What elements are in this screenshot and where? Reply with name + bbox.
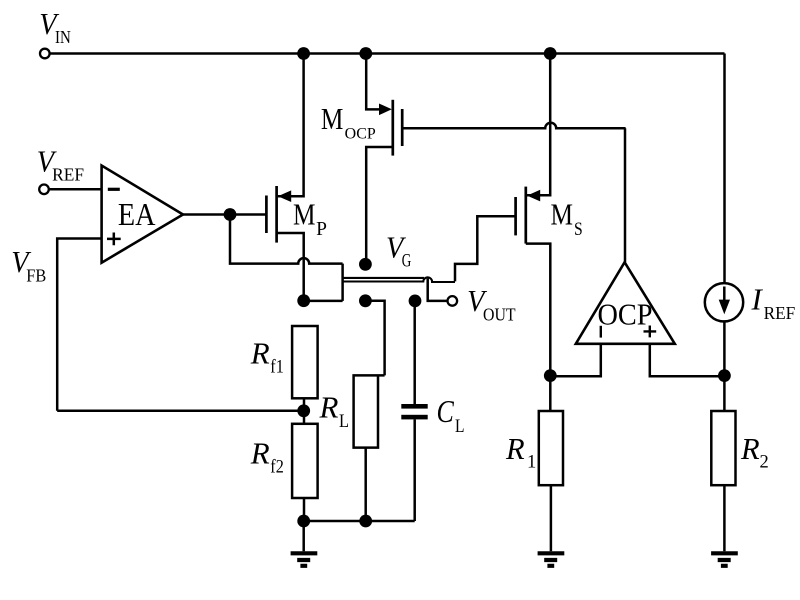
ground symbol R1 <box>538 553 565 566</box>
svg-text:1: 1 <box>527 452 536 472</box>
node junction dot ground rail RL <box>359 515 372 528</box>
wire MP source to below <box>277 233 304 301</box>
wire EA output branch down and right with hop over MP source <box>230 215 343 264</box>
svg-text:G: G <box>402 252 412 272</box>
wire bottom ground rail <box>304 520 415 523</box>
capacitor CL top plate <box>401 404 427 409</box>
transistor MOCP drain arrow <box>379 104 392 116</box>
current source IREF circle <box>705 283 743 321</box>
transistor MS gate bar <box>514 197 517 235</box>
wire EA plus input from VFB <box>57 239 101 411</box>
node junction dot feedback tap <box>297 404 310 417</box>
transistor MP channel bar <box>275 186 278 243</box>
svg-text:R: R <box>250 336 270 371</box>
node junction dot MS source at OCP input <box>544 369 557 382</box>
node junction dot MOCP source at VG bus <box>359 258 372 271</box>
node junction dot CL top <box>409 295 422 308</box>
resistor Rf1 <box>292 326 318 398</box>
svg-text:I: I <box>751 282 764 317</box>
node junction dot on rail at MS column <box>544 47 557 60</box>
comparator OCP triangle <box>576 262 675 344</box>
svg-text:C: C <box>437 394 455 429</box>
wire VIN top rail <box>50 52 725 55</box>
svg-text:R: R <box>505 432 525 466</box>
wire box bottom edge to MP source dot <box>304 300 343 303</box>
wire OCP minus input leg <box>550 344 601 377</box>
wire VG double bus lower line with hop to MS gate <box>343 277 455 282</box>
wire OCP output up <box>624 128 627 262</box>
OCP plus symbol <box>644 326 657 338</box>
EA minus symbol <box>108 188 120 191</box>
resistor R1 <box>539 411 563 485</box>
wire R2 bottom <box>723 485 726 551</box>
node junction dot on rail at MOCP column <box>359 47 372 60</box>
wire IREF to R2 <box>723 320 726 411</box>
wire VG double bus upper line <box>343 277 425 279</box>
node VREF terminal circle <box>39 185 49 195</box>
current source IREF arrow <box>723 287 726 303</box>
svg-text:OCP: OCP <box>345 125 376 142</box>
wire VFB feedback horizontal to Rf divider <box>57 410 304 413</box>
svg-text:OCP: OCP <box>598 298 653 332</box>
svg-text:R: R <box>319 389 339 424</box>
OCP minus symbol <box>600 326 602 338</box>
wire Rf1 to Rf2 <box>303 398 306 424</box>
wire MS source down to R1 <box>526 244 551 411</box>
op-amp EA triangle <box>102 166 183 263</box>
svg-text:2: 2 <box>760 452 769 472</box>
resistor Rf2 <box>292 424 318 498</box>
transistor MOCP channel bar <box>391 100 394 156</box>
wire CL bottom to ground rail <box>413 419 416 521</box>
resistor RL <box>354 375 385 447</box>
node VOUT terminal circle <box>448 296 458 306</box>
svg-text:FB: FB <box>26 265 46 285</box>
capacitor CL bottom plate <box>401 415 427 420</box>
transistor MP drain arrow <box>278 190 291 202</box>
wire right column from VIN rail down to IREF <box>723 54 726 283</box>
svg-text:IN: IN <box>55 27 71 47</box>
ground symbol left <box>291 553 318 566</box>
wire ground stem left <box>302 521 305 551</box>
node junction dot on rail at MP column <box>297 47 310 60</box>
wire MS drain from rail down <box>527 54 550 196</box>
node junction dot RL tap <box>359 294 372 307</box>
wire Rf2 bottom <box>303 498 306 521</box>
node junction dot ground rail left <box>297 515 310 528</box>
wire VOUT stub down from bus <box>428 279 448 301</box>
transistor MS drain arrow <box>527 190 540 202</box>
wire VREF to EA minus input <box>49 188 102 191</box>
wire R1 bottom <box>550 485 553 551</box>
transistor MP gate bar <box>265 196 268 234</box>
svg-text:S: S <box>574 220 583 240</box>
wire OCP plus input leg <box>650 344 725 377</box>
wire MP drain from rail down <box>278 54 304 197</box>
svg-text:REF: REF <box>764 303 796 323</box>
wire RL top connection <box>365 301 384 376</box>
wire box right edge down <box>341 264 344 301</box>
svg-text:EA: EA <box>118 196 156 232</box>
EA plus symbol <box>107 233 121 246</box>
node VIN terminal circle <box>40 49 50 59</box>
transistor MOCP gate bar <box>401 109 404 146</box>
svg-text:M: M <box>551 197 574 232</box>
svg-text:R: R <box>250 436 270 471</box>
svg-text:OUT: OUT <box>483 305 516 325</box>
wire RL bottom to ground rail <box>364 448 367 521</box>
resistor R2 <box>711 411 735 485</box>
svg-text:REF: REF <box>52 164 84 184</box>
svg-text:f2: f2 <box>270 458 284 478</box>
transistor MS channel bar <box>524 187 527 244</box>
ground symbol R2 <box>711 553 738 566</box>
wire CL top <box>413 301 416 404</box>
wire MOCP source down to VG bus <box>366 147 393 259</box>
svg-text:f1: f1 <box>270 358 284 378</box>
svg-text:L: L <box>339 412 349 432</box>
node junction dot OCP plus at R2 <box>718 369 731 382</box>
node junction dot MP source / Rf1 top <box>297 294 310 307</box>
wire MS gate staircase down to VG bus <box>455 216 516 281</box>
svg-text:L: L <box>455 417 465 437</box>
svg-text:M: M <box>321 101 344 136</box>
svg-text:P: P <box>316 219 327 240</box>
transistor MOCP drain from rail <box>366 54 379 110</box>
wire MOCP gate to OCP output with hop over MS column <box>402 123 625 128</box>
wire EA output to MP gate <box>183 213 266 216</box>
svg-text:M: M <box>293 197 316 232</box>
node junction dot EA output <box>224 208 237 221</box>
svg-text:R: R <box>740 432 760 466</box>
